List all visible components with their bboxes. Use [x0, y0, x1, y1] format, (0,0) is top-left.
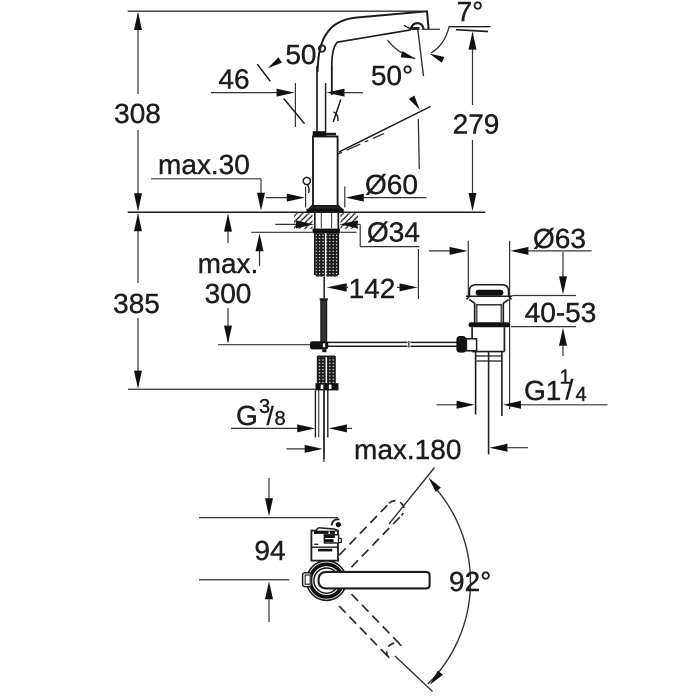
svg-text:max.180: max.180	[354, 434, 461, 465]
svg-text:G1: G1	[524, 375, 561, 406]
dimension G3/8	[231, 396, 352, 432]
drain rod connector	[456, 336, 476, 353]
faucet neck	[317, 66, 332, 132]
svg-text:385: 385	[113, 288, 160, 319]
svg-text:7°: 7°	[457, 0, 484, 27]
top reference line (spout height)	[128, 10, 427, 12]
svg-text:94: 94	[254, 535, 285, 566]
svg-text:50°: 50°	[371, 60, 413, 91]
swivelled spout line	[339, 107, 431, 153]
pop-up rod vertical	[320, 277, 328, 342]
dimension diameter 60	[266, 169, 427, 208]
deck underside reference line	[251, 231, 356, 233]
drain rim	[466, 296, 512, 299]
svg-text:92°: 92°	[449, 566, 491, 597]
mounting deck line	[128, 211, 486, 213]
swivel circles top view	[307, 561, 347, 601]
dimension 94	[199, 478, 338, 622]
svg-text:max.: max.	[198, 248, 259, 279]
svg-text:40-53: 40-53	[525, 297, 597, 328]
handle dashed position down	[339, 594, 401, 658]
svg-text:8: 8	[275, 408, 286, 430]
drain upper body	[469, 300, 508, 323]
svg-text:Ø34: Ø34	[367, 217, 420, 248]
dimension 46	[211, 64, 363, 128]
dimension diameter 63	[429, 223, 592, 409]
faucet body	[313, 131, 338, 206]
svg-text:308: 308	[114, 98, 161, 129]
dimension 385 (left vertical)	[113, 213, 160, 388]
dimension 50 deg lever	[268, 39, 328, 70]
dimension 308 (left vertical)	[114, 12, 161, 211]
faucet body top view	[311, 528, 341, 561]
spout	[318, 11, 429, 95]
svg-text:Ø60: Ø60	[365, 169, 418, 200]
stream direction line	[418, 30, 424, 170]
dimension 40-53	[525, 252, 597, 356]
svg-text:46: 46	[218, 64, 249, 95]
dimension max.30 leader and arrows	[151, 149, 265, 266]
drain plug dome	[470, 285, 509, 296]
40-53 upper reference line	[512, 295, 576, 297]
faucet base	[307, 206, 344, 212]
max.300 bottom reference line	[218, 344, 310, 346]
drain lower body	[472, 327, 504, 351]
pop-up knob top view	[303, 573, 312, 587]
dimension max.180	[286, 434, 528, 465]
svg-text:Ø63: Ø63	[533, 223, 586, 254]
handle dashed position up	[339, 501, 404, 567]
G3/8 threaded connector and nut	[316, 356, 339, 390]
svg-text:279: 279	[453, 109, 500, 140]
svg-text:4: 4	[576, 384, 587, 406]
deck section hatching	[294, 213, 358, 229]
dimension 279	[453, 32, 500, 211]
swivel dash-dot line	[320, 134, 384, 163]
svg-text:max.30: max.30	[158, 149, 250, 180]
dimension diameter 34	[275, 217, 420, 248]
svg-text:300: 300	[205, 278, 252, 309]
svg-text:/: /	[267, 401, 275, 431]
drain flange	[469, 322, 511, 327]
handle bar top view	[319, 572, 430, 589]
pop-up rod junction	[310, 341, 328, 352]
dimension 142	[327, 249, 419, 304]
dimension max.300	[198, 214, 259, 344]
svg-text:G: G	[236, 400, 258, 431]
pop-up rod horizontal	[319, 341, 457, 348]
385 bottom reference line	[128, 388, 316, 390]
svg-text:/: /	[566, 374, 574, 405]
drain tailpipe	[476, 352, 502, 455]
dimension 7 deg	[422, 0, 491, 63]
svg-text:142: 142	[349, 273, 396, 304]
threaded shank	[313, 213, 341, 277]
supply hoses	[315, 390, 327, 459]
spout tip top view	[332, 519, 341, 527]
dimension G1 1/4	[437, 367, 608, 409]
dimension 50 deg spout swivel	[371, 40, 420, 110]
open lever position lines	[257, 64, 341, 124]
dimension 92 deg	[389, 468, 491, 692]
40-53 lower reference line	[511, 326, 576, 328]
pop-up lift knob	[303, 177, 310, 193]
